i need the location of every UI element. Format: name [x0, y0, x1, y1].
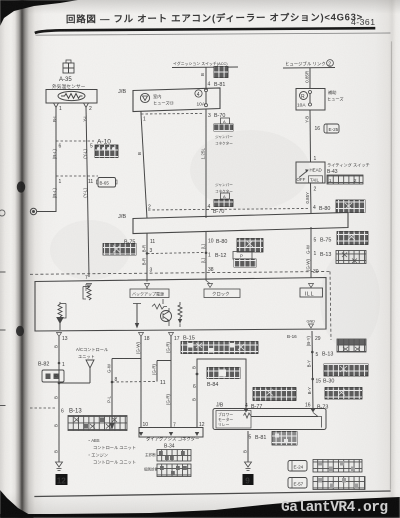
label ジャンパーコネクター upper: [215, 134, 233, 146]
label B mid2: [54, 396, 59, 399]
dashed connector line B-65: [56, 175, 98, 177]
label G-W: [306, 244, 311, 254]
label (G-W): [136, 341, 141, 353]
connector icon above A-35: [63, 60, 74, 73]
connector grid B-81 top: [214, 67, 228, 78]
label 0.85R: [305, 71, 310, 83]
connector grid B-80 right: [336, 200, 365, 213]
dashed option boundary vertical: [330, 272, 331, 341]
wedge top-left scan edge: [0, 0, 90, 26]
header thin rule: [36, 33, 390, 35]
branch x157 pin 11: [157, 361, 171, 387]
label B-34: [164, 444, 175, 450]
binder hole top: [17, 181, 25, 192]
label (G-R) branch: [152, 363, 157, 375]
pin 1: [143, 117, 146, 123]
pin 3 left: [146, 248, 153, 255]
clock label box クロック: [204, 289, 240, 298]
wire fusible link down: [309, 68, 311, 89]
label 0.85Y lower: [305, 192, 310, 204]
label (Y-L): [83, 149, 88, 159]
connector grid B-16: [337, 339, 366, 352]
connector grid bottom right 1: [313, 460, 362, 473]
ground symbol left: [56, 462, 63, 471]
label (G-W): [306, 258, 311, 270]
ground symbol right: [245, 462, 252, 471]
junction pin 1: [58, 362, 65, 368]
right page edge line: [391, 42, 392, 489]
label (B-L) lower: [52, 188, 57, 199]
label B wire mid: [137, 152, 142, 155]
pin 5 label B-81: [249, 435, 267, 442]
pin 5: [90, 144, 93, 150]
bullet list ABS / engine control units: [87, 438, 136, 465]
dashed connector line A-10: [56, 140, 94, 142]
label A-35: [59, 77, 72, 83]
label (L) lower: [201, 257, 206, 263]
wire sub fuse down: [309, 110, 312, 162]
diagnosis connector bar: [139, 428, 203, 438]
pin 4 label B-70: [208, 204, 225, 215]
label B-L: [52, 115, 57, 123]
dashed connector line B-70/B-80: [148, 209, 308, 211]
pin arrow x311 ill: [309, 284, 314, 288]
label A-10: [97, 139, 111, 146]
switch contacts OFF/HEAD/TAIL: [297, 168, 322, 183]
sensor pin 1: [54, 103, 63, 112]
margin ground circle: [0, 210, 5, 216]
header thick rule: [36, 28, 374, 32]
label (G-R) lower: [166, 393, 171, 405]
sensor pin 2: [84, 103, 93, 112]
black scan band bottom: [0, 488, 400, 518]
label ダイアグノシス コネクター: [146, 436, 199, 443]
margin tick y272: [0, 271, 5, 273]
feed line fusible link: [283, 67, 335, 70]
label 室内ヒューズ13: [153, 93, 175, 107]
label (B-L): [52, 149, 57, 160]
label 補助ヒューズ: [327, 89, 344, 103]
junction block band 1: [133, 88, 220, 112]
label (G-R): [166, 341, 171, 353]
connector B-12: [233, 252, 256, 268]
wire ignition to J/B: [205, 68, 207, 91]
diag grid row1: [157, 450, 191, 462]
label B-84: [207, 382, 218, 388]
junction 5 label B-13: [311, 351, 333, 358]
junction 15 label B-30: [311, 378, 334, 385]
label (Y-L) lower: [83, 188, 88, 198]
connector icon E-24: [288, 461, 307, 472]
pin 18: [139, 333, 150, 343]
connector grid B-75 right: [337, 232, 368, 245]
label A/Cコントロールユニット: [76, 347, 108, 359]
wire x206 through band2: [205, 232, 207, 281]
label 10A: [197, 102, 206, 108]
dashed option boundary horizontal: [30, 272, 330, 275]
pin 1 label B-12: [205, 252, 227, 260]
wedge bottom-left scan edge: [0, 480, 40, 518]
label B wire: [200, 73, 205, 76]
connector grid B-77: [253, 388, 296, 401]
page ref box 9: [243, 474, 254, 485]
small tee contact left: [85, 284, 87, 291]
label J/B band2: [118, 214, 126, 220]
label B-R lower: [142, 258, 147, 265]
pin 3 label B-70: [208, 113, 225, 119]
pin 4 label B-77: [245, 403, 262, 410]
label 主診断: [145, 452, 156, 457]
connector grid B-13 mid right: [324, 364, 368, 376]
fuse symbol in J/B: [140, 93, 149, 102]
connector icon B-82: [42, 370, 64, 382]
page bottom rule: [35, 491, 390, 497]
pin 2 lighting switch: [314, 187, 317, 193]
label B-75 left + grid: [124, 240, 135, 246]
page ref box 12: [56, 474, 68, 485]
pin 1 lighting switch: [314, 156, 317, 162]
pin 6: [59, 144, 62, 150]
pin 38: [208, 267, 214, 273]
switch arrow: [299, 169, 323, 183]
connector grid B-43: [327, 175, 363, 184]
margin tick y405: [0, 405, 5, 407]
wire x141 down: [140, 337, 142, 428]
wire x171 down: [170, 337, 172, 428]
header title 回路図-フルオートエアコン(ディーラーオプション)(4G63): [66, 11, 363, 25]
label P-L: [107, 395, 112, 402]
circled R fuse symbol: [300, 92, 308, 101]
backup power label box バックアップ電源: [130, 289, 169, 298]
label Y-B: [305, 116, 310, 123]
relay coil: [244, 413, 251, 418]
blower motor relay box: [213, 409, 326, 430]
wire x147 through band2: [146, 234, 148, 282]
dashed connector line B-13 bottom left: [30, 408, 64, 415]
zener element inside box: [178, 302, 182, 327]
label G-W branch: [107, 363, 112, 373]
branch to P-L arrow: [110, 359, 142, 431]
connector icon E-25: [324, 124, 339, 133]
label ライティングスイッチ B-43: [327, 162, 370, 176]
connector grid B-81 bottom: [272, 432, 297, 446]
relay contact line: [251, 413, 322, 428]
connector grid A-10: [95, 145, 118, 158]
pin arrow x210 clock: [206, 281, 213, 288]
ground wire left: [58, 337, 60, 463]
connector grid bottom right 2: [313, 477, 365, 490]
connector grid B-15: [181, 342, 258, 354]
binder hole bottom: [16, 326, 24, 336]
pin 1: [59, 179, 62, 185]
diag pins 10 7 12: [143, 422, 205, 429]
pin 16 label B-73: [305, 403, 328, 411]
wire x311 through band2: [310, 227, 312, 278]
pin 7 into junction box: [85, 275, 88, 281]
wire x197 path to relay: [197, 359, 246, 427]
gnd arrow: [309, 324, 314, 328]
pin 11: [88, 179, 93, 185]
body ground circle: [30, 208, 36, 214]
watermark GalantVR4.org: [281, 500, 400, 516]
circled 2: [327, 60, 334, 68]
junction block band 2: [133, 213, 348, 234]
label ヒュージブルリンク 2: [285, 61, 326, 68]
label B x197 lower: [192, 398, 197, 401]
control unit main box: [35, 278, 326, 332]
internal wire with arrow: [133, 304, 141, 329]
pin 10 label B-80 mid: [208, 239, 227, 246]
label J/B upper: [118, 89, 126, 95]
dashed connector line B-12: [147, 253, 205, 254]
circled 4 fuse number: [195, 90, 202, 98]
diag grid row2: [157, 464, 191, 477]
sub fuse terminals: [309, 91, 312, 107]
label B relay ground: [243, 450, 248, 453]
label (L) upper: [201, 243, 206, 249]
pin 1 label B-13 right: [314, 251, 332, 258]
pin 16 connector E-25: [315, 126, 321, 132]
label B-Y: [307, 360, 312, 367]
pin 4 label B-80: [313, 205, 330, 212]
connector grid B-70 upper: [214, 118, 233, 131]
label B mid3: [54, 424, 59, 427]
junction 6 B-84: [193, 373, 198, 390]
label B: [54, 345, 59, 348]
pin 30: [313, 269, 319, 275]
header page number 4-361: [351, 17, 375, 27]
ambient temp sensor A-35 body: [46, 90, 97, 104]
connector B-65: [97, 178, 118, 188]
wire lighting switch down: [310, 183, 313, 214]
pin arrow x89: [87, 284, 92, 288]
pin 11: [150, 239, 155, 245]
junction 8: [111, 377, 118, 383]
connector grid B-80 mid: [237, 239, 263, 253]
margin tick y330: [0, 329, 5, 331]
dashed connector line B-70 top: [141, 113, 203, 116]
fuse terminals on wire: [205, 89, 208, 107]
label B-Y lower: [307, 387, 312, 394]
pin 4 label B-81: [208, 82, 226, 89]
label GND: [307, 320, 316, 324]
lighting switch B-43 box: [296, 162, 325, 183]
label B-13 bottom: [69, 409, 82, 415]
connector icon E-57: [288, 478, 307, 489]
connector grid B-84: [207, 368, 240, 379]
label B-R upper: [142, 245, 147, 252]
connector grid B-70 lower: [214, 193, 233, 207]
pin 3 box entry: [150, 268, 153, 274]
dashed link 8-11: [112, 381, 157, 384]
wire ignition trunk 1.25L: [205, 110, 207, 219]
label B lower: [54, 450, 59, 453]
label B-16: [287, 334, 297, 339]
pin 5 label B-75 right: [314, 238, 332, 244]
label B mid: [54, 374, 59, 377]
label Y-L: [83, 115, 88, 122]
illumination label box ILL: [300, 288, 323, 298]
pointer triangle A/C unit: [58, 360, 94, 384]
wire Y-L right sensor leg: [86, 107, 89, 277]
wire from fuse 1 down: [141, 112, 147, 219]
connector grid B-13 bottom: [68, 416, 127, 431]
connector grid B-30: [325, 388, 362, 400]
label 10A sub fuse: [297, 103, 306, 109]
label B-15: [183, 336, 195, 342]
pin 2: [148, 205, 151, 211]
label 個別診断: [144, 467, 159, 472]
pin 17: [169, 333, 180, 343]
label イグニッションスイッチ(ACC): [173, 61, 228, 66]
label B x197: [192, 366, 197, 369]
wire relay to ground: [247, 431, 249, 462]
pin arrow x147 backup: [145, 284, 150, 290]
connector grid B-13 right open: [336, 251, 366, 264]
label B-82: [38, 362, 49, 368]
thermistor symbol inside box: [83, 284, 91, 300]
label (B-Y): [306, 335, 311, 346]
resistor + diode element inside box: [57, 302, 66, 330]
relay inner unit ブロワーモーターリレー: [216, 411, 251, 429]
pin 13: [57, 333, 68, 343]
label J/B relay: [216, 403, 224, 409]
pin 29 wire down right: [312, 331, 321, 410]
sub fuse box: [296, 89, 325, 111]
label 1.25L: [201, 148, 206, 160]
transistor circuit inside box: [152, 299, 172, 326]
feed line ignition: [172, 66, 238, 69]
label ジャンパーコネクター lower: [215, 182, 233, 194]
label 外気温センサー: [52, 83, 86, 90]
connector grid B-75 left: [103, 244, 136, 256]
wire B-L left sensor leg: [37, 107, 57, 212]
